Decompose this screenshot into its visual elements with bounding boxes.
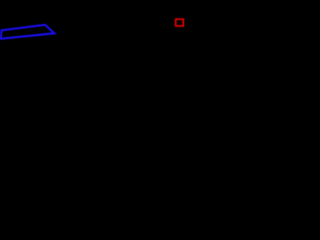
red square outline: [176, 19, 184, 26]
blue quadrilateral outline: [1, 25, 55, 39]
